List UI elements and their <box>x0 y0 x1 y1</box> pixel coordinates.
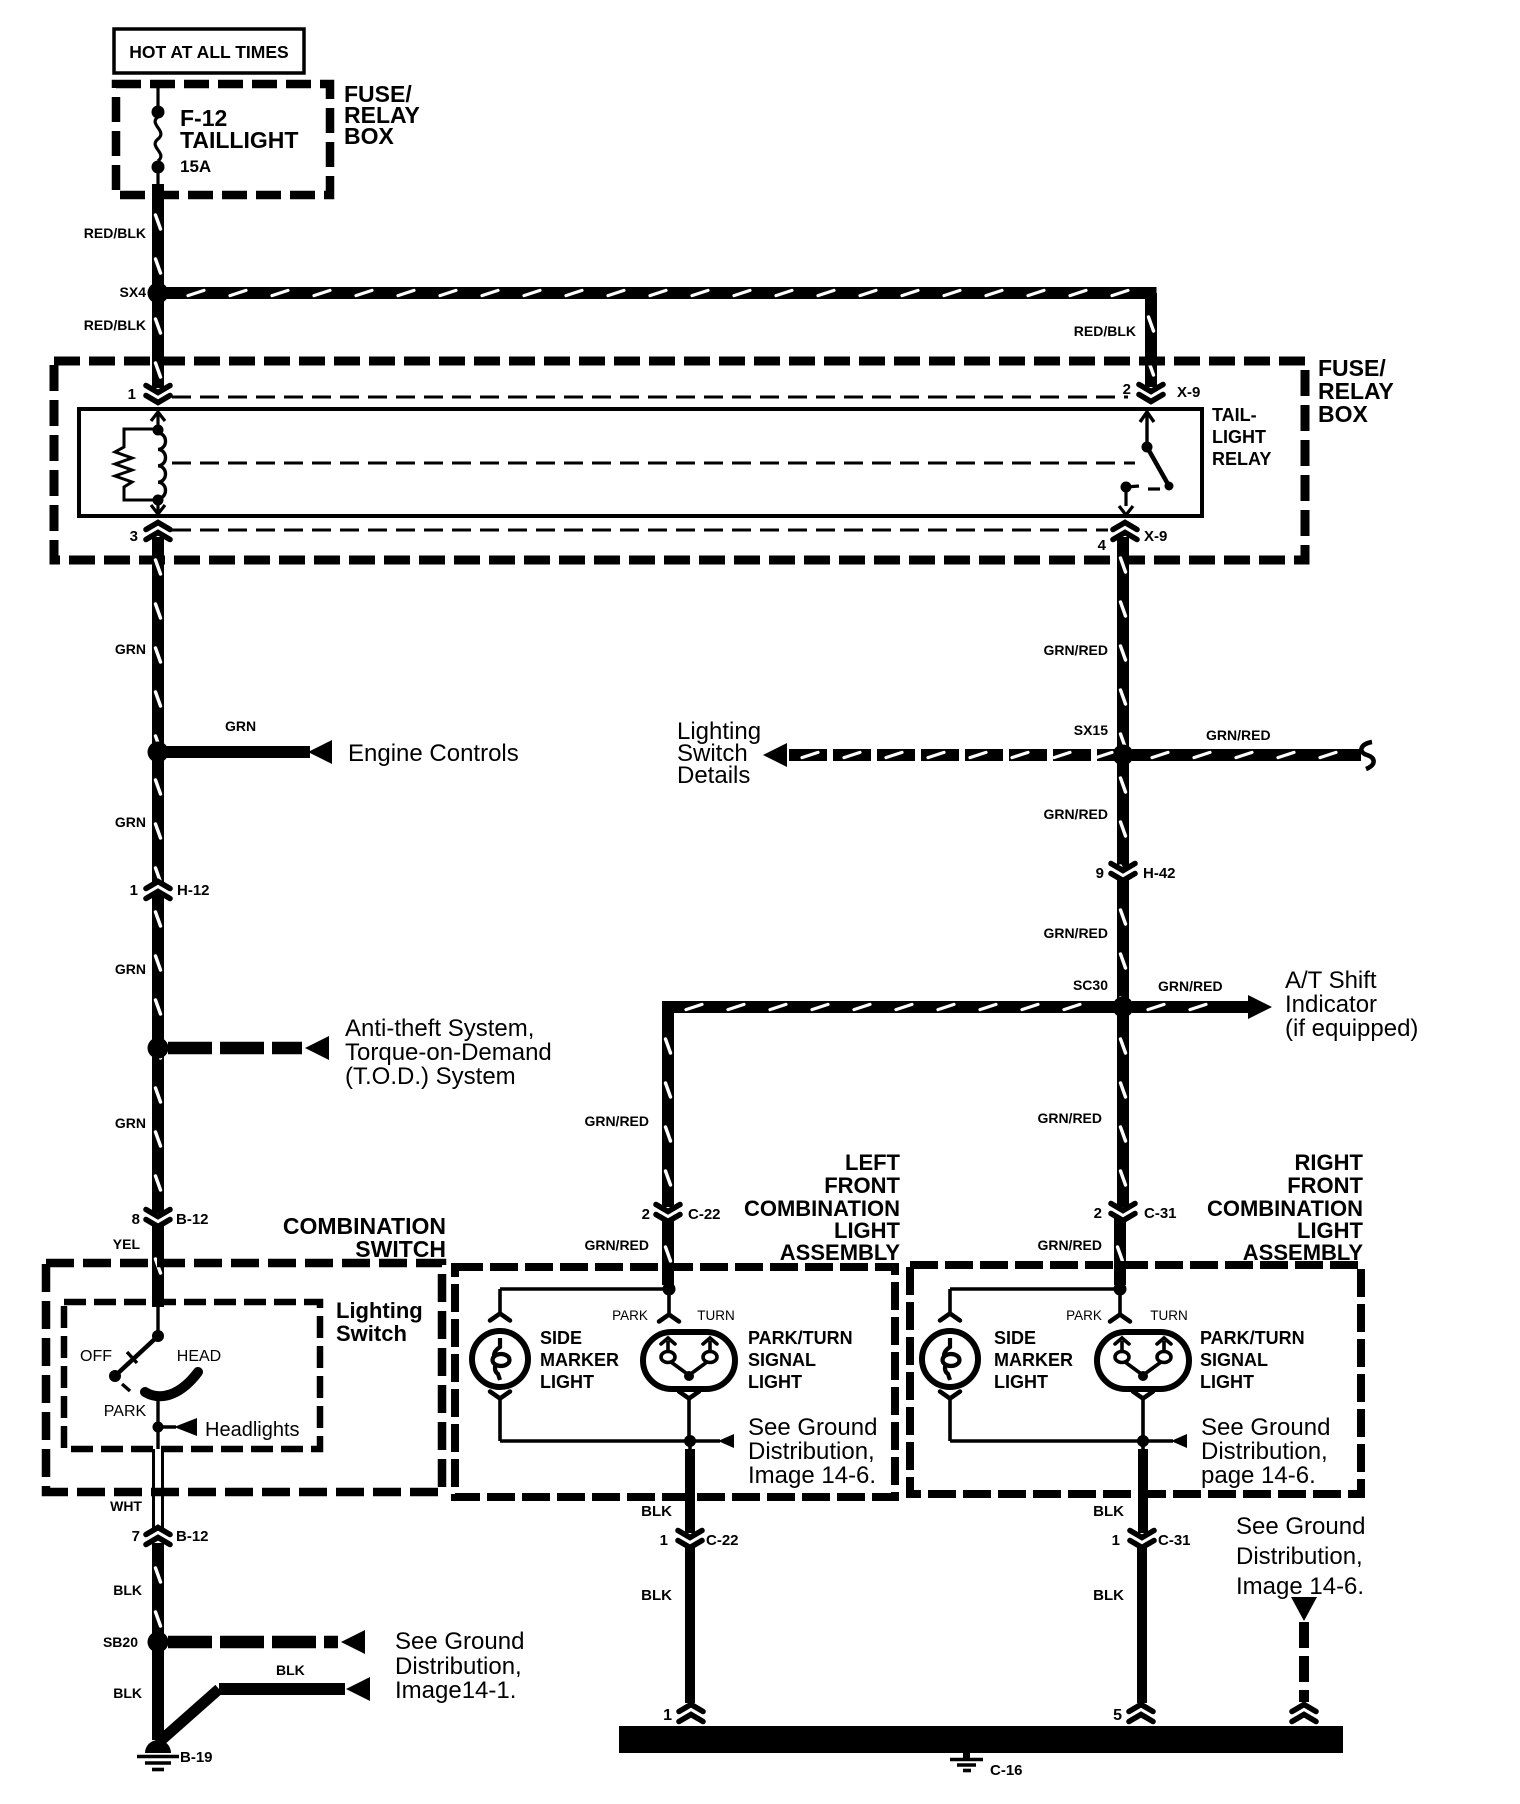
label PARK (right) <box>1066 1308 1102 1323</box>
svg-text:RIGHT: RIGHT <box>1295 1150 1364 1175</box>
svg-text:LIGHT: LIGHT <box>540 1372 594 1392</box>
wire GRN/RED SC30 down to right assembly <box>1117 1007 1129 1207</box>
svg-text:HEAD: HEAD <box>177 1348 221 1365</box>
svg-text:PARK: PARK <box>1066 1308 1102 1323</box>
svg-text:BLK: BLK <box>276 1662 305 1678</box>
wire GRN relay pin3 down to combination switch <box>152 537 164 1213</box>
ground C-16 <box>950 1753 1023 1779</box>
svg-text:GRN/RED: GRN/RED <box>1043 925 1108 941</box>
label GRN/RED left branch 2 <box>584 1237 649 1253</box>
svg-text:Torque-on-Demand: Torque-on-Demand <box>345 1039 552 1066</box>
svg-text:3: 3 <box>130 528 138 545</box>
wire RED/BLK fuse to node SX4 <box>152 184 164 289</box>
svg-text:Anti-theft System,: Anti-theft System, <box>345 1015 534 1042</box>
right front combination light assembly dashed box <box>910 1265 1361 1494</box>
svg-text:2: 2 <box>1094 1205 1102 1222</box>
label RED/BLK (right, above relay) <box>1074 323 1136 339</box>
node SB20 and dashed wire to ground distribution <box>103 1628 524 1704</box>
node and wire to Engine Controls <box>148 718 519 767</box>
label TURN (left) <box>697 1308 735 1323</box>
svg-text:RELAY: RELAY <box>1212 449 1271 469</box>
svg-text:1: 1 <box>663 1707 672 1724</box>
wire GRN/RED node SX15 to continuation squiggle <box>1132 727 1374 769</box>
svg-text:Distribution,: Distribution, <box>395 1653 522 1680</box>
svg-text:SC30: SC30 <box>1073 977 1108 993</box>
svg-text:Indicator: Indicator <box>1285 991 1377 1018</box>
svg-text:Headlights: Headlights <box>205 1419 300 1441</box>
label GRN/RED right branch 1 <box>1037 1110 1102 1126</box>
label GRN/RED r3 <box>1043 925 1108 941</box>
label PARK (left) <box>612 1308 648 1323</box>
label GRN 2 <box>115 814 146 830</box>
park/turn signal light label (left) <box>748 1328 853 1392</box>
svg-text:Distribution,: Distribution, <box>1236 1543 1363 1570</box>
park/turn signal light label (right) <box>1200 1328 1305 1392</box>
svg-text:TAIL-: TAIL- <box>1212 405 1257 425</box>
svg-text:BLK: BLK <box>1093 1587 1124 1604</box>
svg-text:MARKER: MARKER <box>994 1350 1073 1370</box>
svg-text:ASSEMBLY: ASSEMBLY <box>1243 1240 1364 1265</box>
wire GRN/RED into right assembly <box>1114 1218 1126 1285</box>
svg-text:1: 1 <box>128 386 136 403</box>
svg-text:B-19: B-19 <box>180 1749 213 1766</box>
svg-text:SIGNAL: SIGNAL <box>748 1350 816 1370</box>
svg-text:BLK: BLK <box>113 1685 142 1701</box>
svg-text:Image 14-6.: Image 14-6. <box>1236 1573 1364 1600</box>
svg-text:PARK: PARK <box>612 1308 648 1323</box>
svg-text:Distribution,: Distribution, <box>1201 1438 1328 1465</box>
svg-text:Image 14-6.: Image 14-6. <box>748 1462 876 1489</box>
svg-text:C-31: C-31 <box>1158 1532 1191 1549</box>
svg-text:TURN: TURN <box>1150 1308 1188 1323</box>
side marker light label (right) <box>994 1328 1073 1392</box>
node and dashed wire to Anti-theft System <box>148 1015 552 1090</box>
wire RED/BLK node SX4 to relay pin 2 (top horizontal run) <box>163 287 1157 387</box>
svg-text:B-12: B-12 <box>176 1211 209 1228</box>
connector pin 2 X-9 (relay switch top) <box>1123 381 1201 402</box>
svg-text:1: 1 <box>1112 1532 1120 1549</box>
fuse/relay box (lower) label <box>1318 355 1394 427</box>
svg-text:Details: Details <box>677 762 750 789</box>
svg-text:LIGHT: LIGHT <box>1212 427 1266 447</box>
svg-text:TURN: TURN <box>697 1308 735 1323</box>
connector 8 B-12 <box>132 1210 209 1229</box>
wire WHT (open wire) lighting switch to connector 7 <box>110 1449 162 1529</box>
svg-text:SIGNAL: SIGNAL <box>1200 1350 1268 1370</box>
svg-text:FRONT: FRONT <box>824 1173 900 1198</box>
ground B-19 <box>137 1740 213 1770</box>
svg-text:GRN/RED: GRN/RED <box>1206 727 1271 743</box>
svg-text:BLK: BLK <box>113 1582 142 1598</box>
svg-text:BOX: BOX <box>344 123 395 149</box>
svg-text:2: 2 <box>642 1206 650 1223</box>
svg-text:B-12: B-12 <box>176 1528 209 1545</box>
svg-text:C-22: C-22 <box>706 1532 739 1549</box>
svg-text:SB20: SB20 <box>103 1634 138 1650</box>
wire BLK connector 7 to node SB20 <box>113 1543 164 1642</box>
svg-text:BLK: BLK <box>641 1503 672 1520</box>
relay internal dashed link (coil to switch) <box>172 462 1135 465</box>
svg-text:RED/BLK: RED/BLK <box>84 317 146 333</box>
connector 1 at ground bus (left) <box>663 1705 704 1725</box>
svg-text:WHT: WHT <box>110 1498 142 1514</box>
svg-text:GRN: GRN <box>225 718 256 734</box>
svg-text:PARK/TURN: PARK/TURN <box>748 1328 853 1348</box>
svg-text:H-42: H-42 <box>1143 865 1176 882</box>
lighting switch dashed box <box>64 1302 320 1449</box>
connector 1 H-12 <box>130 882 210 900</box>
svg-text:GRN: GRN <box>115 1115 146 1131</box>
relay coil (with parallel resistor) <box>115 412 166 514</box>
svg-text:Lighting: Lighting <box>336 1298 423 1323</box>
connector pin 3 (relay coil bottom) <box>130 523 171 546</box>
svg-text:GRN/RED: GRN/RED <box>584 1237 649 1253</box>
label BLK below right assembly <box>1093 1503 1124 1520</box>
svg-text:ASSEMBLY: ASSEMBLY <box>780 1240 901 1265</box>
svg-text:OFF: OFF <box>80 1348 112 1365</box>
svg-text:SX4: SX4 <box>120 284 147 300</box>
svg-text:C-31: C-31 <box>1144 1205 1177 1222</box>
svg-text:X-9: X-9 <box>1177 384 1200 401</box>
svg-text:RED/BLK: RED/BLK <box>1074 323 1136 339</box>
right assembly internals (side marker + park/turn bulbs) <box>922 1283 1330 1534</box>
wire GRN/RED relay pin4 down to right assembly <box>1117 537 1129 1207</box>
wire BLK C-22 to ground bus <box>641 1546 695 1703</box>
connector pin 1 (relay coil top) <box>128 386 171 404</box>
svg-text:7: 7 <box>132 1528 140 1545</box>
wire BLK SB20 to ground B-19 with branch <box>113 1642 370 1743</box>
svg-text:SX15: SX15 <box>1074 722 1108 738</box>
connector at ground bus (right arrow) <box>1291 1705 1317 1722</box>
label GRN 4 <box>115 1115 146 1131</box>
svg-text:TAILLIGHT: TAILLIGHT <box>180 127 298 153</box>
svg-text:PARK/TURN: PARK/TURN <box>1200 1328 1305 1348</box>
label GRN/RED left branch 1 <box>584 1113 649 1129</box>
svg-text:BLK: BLK <box>1093 1503 1124 1520</box>
relay switch contacts <box>1119 412 1174 515</box>
label GRN 3 <box>115 961 146 977</box>
svg-text:SIDE: SIDE <box>540 1328 582 1348</box>
svg-text:Distribution,: Distribution, <box>748 1438 875 1465</box>
svg-text:GRN/RED: GRN/RED <box>1043 806 1108 822</box>
svg-text:LIGHT: LIGHT <box>994 1372 1048 1392</box>
svg-text:FRONT: FRONT <box>1287 1173 1363 1198</box>
svg-text:GRN: GRN <box>115 641 146 657</box>
svg-text:GRN/RED: GRN/RED <box>1158 978 1223 994</box>
bus dashed line pin1 to pin2 <box>172 396 1128 399</box>
svg-text:BLK: BLK <box>641 1587 672 1604</box>
connector 1 C-22 <box>660 1531 739 1550</box>
combination switch label <box>283 1213 446 1262</box>
label TURN (right) <box>1150 1308 1188 1323</box>
lighting switch label <box>336 1298 423 1346</box>
svg-text:GRN: GRN <box>115 814 146 830</box>
svg-text:(T.O.D.) System: (T.O.D.) System <box>345 1063 516 1090</box>
svg-text:C-22: C-22 <box>688 1206 721 1223</box>
label RED/BLK (below SX4) <box>84 317 146 333</box>
fuse F-12 TAILLIGHT 15A <box>152 88 299 184</box>
svg-text:GRN/RED: GRN/RED <box>584 1113 649 1129</box>
svg-text:15A: 15A <box>180 157 211 176</box>
right front combination light assembly label <box>1207 1150 1364 1265</box>
left assembly internals (side marker + park/turn bulbs) <box>472 1283 877 1534</box>
label GRN 1 <box>115 641 146 657</box>
wire YEL into lighting switch <box>152 1224 164 1307</box>
svg-text:GRN/RED: GRN/RED <box>1043 642 1108 658</box>
svg-text:1: 1 <box>130 882 138 899</box>
label GRN/RED r2 <box>1043 806 1108 822</box>
svg-text:1: 1 <box>660 1532 668 1549</box>
svg-text:A/T Shift: A/T Shift <box>1285 967 1377 994</box>
node SX15 and dashed wire to Lighting Switch Details <box>677 718 1134 789</box>
fuse/relay box (upper) label <box>344 81 420 149</box>
label GRN/RED r1 <box>1043 642 1108 658</box>
svg-text:RED/BLK: RED/BLK <box>84 225 146 241</box>
side marker light label (left) <box>540 1328 619 1392</box>
label GRN/RED right branch 2 <box>1037 1237 1102 1253</box>
wire BLK C-31 to ground bus <box>1093 1546 1147 1703</box>
svg-text:Switch: Switch <box>336 1321 407 1346</box>
connector 5 at ground bus <box>1113 1705 1154 1725</box>
svg-text:4: 4 <box>1098 537 1107 554</box>
svg-text:X-9: X-9 <box>1144 528 1167 545</box>
left front combination light assembly label <box>744 1150 901 1265</box>
svg-text:H-12: H-12 <box>177 882 210 899</box>
ground bus bar <box>619 1726 1343 1753</box>
svg-text:Image14-1.: Image14-1. <box>395 1677 516 1704</box>
tail-light relay body <box>79 409 1202 516</box>
svg-text:See Ground: See Ground <box>1201 1414 1330 1441</box>
svg-text:8: 8 <box>132 1211 140 1228</box>
svg-text:HOT AT ALL TIMES: HOT AT ALL TIMES <box>129 42 288 62</box>
svg-text:See Ground: See Ground <box>1236 1513 1365 1540</box>
bus dashed line pin3 to pin4 <box>172 529 1108 532</box>
wire GRN/RED into left assembly <box>662 1219 674 1285</box>
connector pin 4 X-9 (relay switch bottom) <box>1098 523 1168 555</box>
svg-text:See Ground: See Ground <box>395 1628 524 1655</box>
svg-text:C-16: C-16 <box>990 1762 1023 1779</box>
node SX4 <box>120 283 169 304</box>
label BLK below left assembly <box>641 1503 672 1520</box>
left front combination light assembly dashed box <box>455 1267 895 1497</box>
svg-text:9: 9 <box>1096 865 1104 882</box>
label RED/BLK (upper left) <box>84 225 146 241</box>
svg-text:PARK: PARK <box>104 1403 147 1420</box>
svg-text:page 14-6.: page 14-6. <box>1201 1462 1316 1489</box>
svg-text:See Ground: See Ground <box>748 1414 877 1441</box>
connector 2 C-31 <box>1094 1204 1177 1223</box>
node SC30 with wire to left assembly and A/T shift arrow <box>662 967 1418 1207</box>
svg-text:LEFT: LEFT <box>845 1150 901 1175</box>
connector 9 H-42 <box>1096 864 1176 883</box>
fuse/relay box (upper) dashed outline <box>116 84 330 195</box>
svg-text:BOX: BOX <box>1318 401 1369 427</box>
svg-text:GRN: GRN <box>115 961 146 977</box>
headlights tap <box>153 1395 300 1449</box>
svg-text:2: 2 <box>1123 381 1131 398</box>
connector 1 C-31 <box>1112 1531 1191 1550</box>
connector 7 B-12 <box>132 1528 209 1546</box>
tail-light relay label <box>1212 405 1271 469</box>
combination switch dashed box <box>46 1263 442 1492</box>
svg-text:SIDE: SIDE <box>994 1328 1036 1348</box>
svg-text:GRN/RED: GRN/RED <box>1037 1237 1102 1253</box>
fuse/relay box (lower) dashed outline <box>54 361 1305 560</box>
label YEL <box>113 1236 141 1252</box>
power source label HOT AT ALL TIMES <box>114 29 304 73</box>
wire RED/BLK node SX4 down to relay pin 1 <box>152 293 164 388</box>
svg-text:MARKER: MARKER <box>540 1350 619 1370</box>
connector 2 C-22 <box>642 1205 721 1224</box>
svg-text:5: 5 <box>1113 1707 1122 1724</box>
svg-text:GRN/RED: GRN/RED <box>1037 1110 1102 1126</box>
svg-text:Engine Controls: Engine Controls <box>348 740 519 767</box>
see ground distribution arrow (bottom right) <box>1236 1513 1365 1702</box>
svg-text:LIGHT: LIGHT <box>1200 1372 1254 1392</box>
svg-text:LIGHT: LIGHT <box>748 1372 802 1392</box>
lighting switch mechanism OFF/HEAD/PARK <box>80 1307 221 1420</box>
svg-text:(if equipped): (if equipped) <box>1285 1015 1418 1042</box>
svg-text:YEL: YEL <box>113 1236 141 1252</box>
svg-text:SWITCH: SWITCH <box>355 1236 446 1262</box>
